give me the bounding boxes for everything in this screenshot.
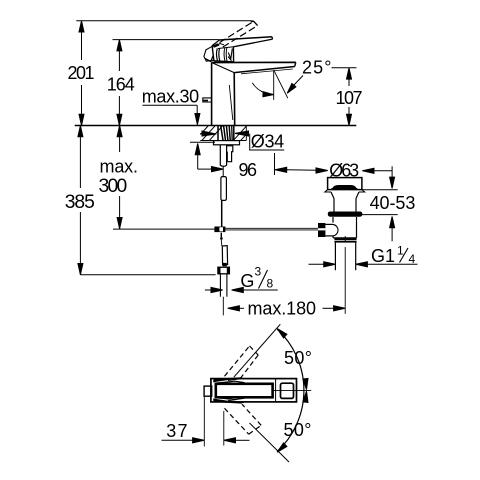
- svg-text:G1: G1: [371, 246, 395, 266]
- drain rim lip right: [359, 190, 365, 192]
- svg-text:164: 164: [107, 74, 135, 94]
- dim 96 right tick: [274, 153, 276, 175]
- dim 37 ext line 2: [223, 411, 225, 446]
- handle block scribble 3: [223, 48, 226, 62]
- max30 arrow down: [195, 114, 200, 125]
- svg-text:107: 107: [336, 88, 363, 108]
- svg-text:max.180: max.180: [248, 299, 317, 319]
- upper 50deg diagonal: [234, 324, 280, 377]
- raised lever dashed lower line: [223, 26, 258, 47]
- shank through deck right edge: [233, 126, 235, 141]
- dim 40-53 vertical line bottom: [391, 227, 393, 241]
- dim 385 line: [79, 126, 81, 189]
- dim 40-53 bottom arrow up: [390, 217, 395, 228]
- diam63 left arrow: [316, 168, 328, 173]
- lower hose tube: [222, 246, 227, 265]
- deck slab right cap: [245, 126, 247, 141]
- drain body left wall: [332, 217, 334, 223]
- ext line flange top: [361, 189, 397, 191]
- svg-text:96: 96: [239, 160, 258, 180]
- rod port tube bottom: [325, 235, 333, 237]
- drain neck right: [355, 199, 357, 213]
- top view scribble top-left: [214, 378, 243, 382]
- dim 40-53 vertical line top: [391, 166, 393, 178]
- drain body right wall: [356, 217, 358, 238]
- G114 slash: [400, 248, 409, 263]
- top view cartridge square: [281, 383, 294, 398]
- drain locknut black bands: [334, 238, 356, 240]
- G38 threaded end left: [219, 274, 221, 297]
- dim 37 ext line 1: [203, 397, 205, 447]
- diam63 right tail: [373, 170, 392, 172]
- ref line lever rest height 164: [113, 39, 220, 41]
- rod port cap slit: [318, 228, 325, 230]
- svg-text:40-53: 40-53: [370, 193, 416, 213]
- G38 dim right tail: [242, 289, 278, 291]
- dim 201 arrow up: [79, 21, 84, 32]
- spout tip cap: [295, 62, 296, 66]
- lower dashed lever rect: [225, 408, 249, 434]
- 25 deg slanted line: [274, 70, 288, 98]
- dim max300 arrow down: [117, 218, 122, 229]
- svg-text:37: 37: [166, 421, 187, 441]
- dim 40-53 top arrow down: [390, 177, 395, 188]
- arc arrow bottom end: [277, 443, 287, 452]
- dim 201 arrow down: [79, 114, 84, 125]
- hose centerline below: [222, 297, 224, 316]
- diam34 left arrow: [202, 131, 216, 136]
- 25 deg leader arrow: [287, 83, 296, 93]
- handle block inner edge: [218, 47, 233, 49]
- drain tailpipe left: [334, 243, 336, 271]
- top view scribble bottom-left: [214, 399, 243, 403]
- leader to 96 arrow: [198, 168, 211, 170]
- dim 37 left arrow: [193, 438, 205, 443]
- dim 164 arrow up: [117, 40, 122, 51]
- deck / counter line: [75, 125, 357, 127]
- dim 107 top leader (from 25 deg label): [332, 67, 357, 69]
- deck hatch 5: [241, 134, 247, 140]
- dim 164 line: [118, 40, 120, 71]
- svg-text:300: 300: [99, 176, 128, 197]
- deck slab bottom line: [200, 140, 246, 142]
- drain neck taper right: [356, 192, 359, 199]
- top view lever rect (thick): [216, 384, 273, 398]
- dim 96 left arrow: [212, 167, 224, 172]
- max30 arrow up (washer bottom): [195, 144, 200, 155]
- handle block scribble 2: [218, 48, 221, 61]
- drain seal (black band): [328, 212, 363, 217]
- arc arrow below centerline: [303, 391, 308, 402]
- G114 dim right arrow: [356, 262, 368, 267]
- deck hatch 2: [210, 126, 223, 140]
- handle block scribble 5 (check mark): [228, 49, 232, 59]
- drain plug bottom line: [332, 188, 358, 190]
- G38 nut black right: [227, 267, 230, 274]
- shank thread lines: [221, 126, 223, 141]
- ref line 385 bottom (hose end): [80, 274, 215, 276]
- G38 dim left tail: [205, 289, 212, 291]
- pop-up rod to drain (double line): [225, 227, 318, 229]
- dim 385 arrow down: [78, 264, 83, 275]
- handle block flap crease: [205, 55, 213, 62]
- handle block left edge: [212, 46, 214, 61]
- handle block left flap: [204, 46, 214, 61]
- hose upper tube: [221, 177, 227, 201]
- max30 lower ext line (washer bottom): [190, 141, 215, 143]
- top view centerline: [273, 389, 312, 391]
- max180 left tail: [239, 307, 245, 309]
- 25 deg vertical ref line: [273, 70, 275, 100]
- svg-text:3: 3: [255, 265, 262, 279]
- top view left tab (spout tip): [204, 386, 212, 396]
- svg-text:Ø34: Ø34: [251, 132, 284, 152]
- drain rod double line left of port handled above; rod port cap: [318, 223, 325, 237]
- deck hatch 4: [234, 126, 247, 140]
- stub black tip: [220, 237, 222, 239]
- dim 385 arrow up: [78, 126, 83, 137]
- spout far bottom edge (thin): [241, 69, 293, 74]
- faucet body right edge: [233, 73, 236, 126]
- drain rim lip left: [325, 190, 331, 192]
- dim 201 line: [81, 21, 83, 60]
- svg-text:201: 201: [68, 63, 95, 83]
- svg-text:1: 1: [397, 244, 404, 258]
- diam63 right arrow: [362, 168, 374, 173]
- thin line to lower hose: [220, 240, 223, 247]
- aerator nub mark: [203, 100, 208, 102]
- faucet body left edge: [211, 63, 213, 126]
- shared line 96 / diam63: [286, 169, 317, 172]
- thin rod below shank: [222, 166, 224, 176]
- deck hatch 1: [202, 126, 215, 140]
- top view outer body rect: [211, 379, 297, 402]
- dim 96 right arrow: [275, 167, 287, 172]
- svg-text:385: 385: [65, 192, 95, 213]
- dim 37 right arrow: [224, 438, 236, 443]
- handle block right edge: [232, 47, 234, 62]
- svg-text:50°: 50°: [284, 420, 312, 440]
- handle lever bottom edge: [233, 39, 272, 47]
- pop-up rod horizontal line (max300 reference): [113, 228, 214, 230]
- raised lever tip cap: [251, 21, 258, 25]
- washer under deck: [214, 141, 240, 145]
- svg-text:G: G: [240, 271, 254, 291]
- spout beam top edge: [212, 61, 296, 63]
- max180 right arrow: [334, 306, 346, 311]
- faucet body inner perspective edge: [229, 85, 233, 120]
- drain neck taper left: [331, 192, 334, 199]
- 25 deg arc: [252, 83, 273, 95]
- G38 nut black left: [218, 267, 221, 274]
- max30 arrow line down: [196, 105, 198, 114]
- clamp block: [214, 227, 225, 233]
- aerator nub on body: [203, 98, 212, 102]
- deck hatch 3: [200, 126, 208, 135]
- handle block scribble 4: [225, 48, 228, 61]
- dim 107 line: [348, 68, 350, 86]
- svg-text:8: 8: [267, 277, 274, 291]
- arc arrow above centerline: [303, 378, 308, 389]
- handle block top-left edge: [212, 40, 219, 45]
- G38 slash: [259, 270, 268, 289]
- ext line basin top: [362, 214, 398, 216]
- diam34 left arrow tail: [200, 133, 205, 135]
- drain centerline: [344, 236, 346, 242]
- lower 50deg diagonal: [250, 423, 290, 462]
- dim 164 arrow down: [117, 114, 122, 125]
- stub below clamp: [220, 233, 222, 238]
- G38 nut: [218, 267, 230, 274]
- max30 lower leader vertical: [197, 154, 199, 169]
- top view inner divider line: [275, 379, 277, 401]
- svg-text:4: 4: [409, 252, 416, 266]
- rod port inner arc: [333, 224, 338, 236]
- diam34 leader bracket: [250, 134, 285, 150]
- svg-text:max.30: max.30: [142, 87, 200, 107]
- shank through deck left edge: [217, 126, 219, 141]
- drain tailpipe right: [355, 243, 357, 271]
- drain plug (lens): [333, 185, 356, 188]
- lower hose dark end: [223, 263, 227, 266]
- spout lower-left perspective edge: [212, 63, 235, 73]
- G114 right tail: [366, 263, 417, 265]
- handle lever tip: [271, 37, 274, 39]
- handle block scribble 1: [216, 48, 217, 61]
- svg-text:max.: max.: [100, 156, 139, 176]
- dim max300 line: [119, 126, 121, 153]
- rod down to clamp: [221, 200, 223, 228]
- shank step left tube: [220, 145, 226, 166]
- drain neck left: [333, 199, 335, 213]
- svg-text:50°: 50°: [284, 348, 312, 368]
- dim 37 line left: [162, 439, 194, 441]
- rod port tube top: [325, 223, 333, 225]
- arc arrow top end: [277, 329, 287, 338]
- raised lever dashed upper line: [220, 21, 254, 42]
- dim 107 arrow down: [347, 114, 352, 125]
- dim 37 right tail: [235, 439, 250, 441]
- G38 dim left arrow: [211, 287, 223, 292]
- shank step right piece: [227, 146, 233, 162]
- diam34 right arrow: [235, 131, 249, 136]
- G38 threaded end right: [226, 274, 228, 297]
- handle lever top edge: [219, 37, 272, 40]
- upper dashed lever rect: [225, 346, 250, 376]
- G114 dim left arrow: [324, 262, 336, 267]
- ref line top (raised lever height 201): [76, 20, 252, 22]
- max30 underline: [143, 104, 198, 106]
- 25 deg arc arrow: [263, 92, 274, 97]
- max180 line right: [323, 307, 336, 309]
- G38 dim right arrow: [232, 287, 244, 292]
- handle block bottom edge: [214, 61, 234, 62]
- G114 left tail: [309, 263, 325, 265]
- shank step inner line: [226, 152, 228, 162]
- handle block scribble 6: [228, 57, 232, 61]
- svg-text:25°: 25°: [302, 58, 332, 78]
- 25 deg leader to arrow: [294, 76, 304, 86]
- clamp white center: [219, 227, 223, 231]
- swing arc: [277, 329, 304, 451]
- drain body bottom line: [333, 237, 357, 239]
- handle block top-left dark blob: [213, 43, 220, 48]
- dim max300 arrow up: [117, 126, 122, 137]
- handle block top scribble: [215, 44, 225, 47]
- max180 left arrow: [228, 306, 240, 311]
- dim 107 arrow up: [347, 68, 352, 79]
- drain rim cup: [328, 178, 362, 190]
- spout bottom edge: [234, 67, 295, 73]
